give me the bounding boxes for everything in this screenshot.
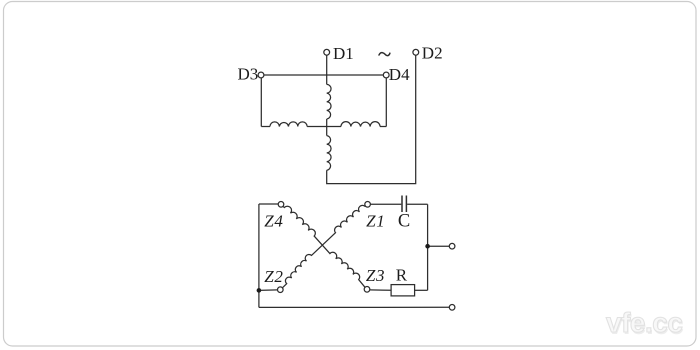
winding Z2-Z1 diagonal	[282, 205, 365, 287]
svg-text:D1: D1	[333, 44, 354, 63]
svg-text:R: R	[396, 266, 408, 285]
terminal Z4	[278, 202, 284, 208]
resistor R body	[391, 285, 415, 296]
terminal right middle	[449, 243, 455, 249]
wire D4 right vertical	[385, 78, 387, 127]
wire right vertical of bottom circuit	[427, 204, 429, 290]
wire center vertical through bottom wire	[326, 119, 328, 136]
terminal D4	[383, 72, 389, 78]
wire bottom of bottom circuit	[259, 306, 450, 308]
winding L1 upper vertical coil	[327, 84, 331, 119]
wire bottom of top circuit left stub	[261, 126, 270, 128]
label ac source tilde	[379, 53, 390, 56]
wire left vertical of bottom circuit	[258, 204, 260, 307]
svg-text:D2: D2	[422, 44, 443, 63]
terminal right bottom	[449, 305, 455, 311]
wire bottom of top circuit right stub	[380, 126, 386, 128]
wire Z3 to resistor	[370, 289, 391, 291]
capacitor C plates	[402, 196, 406, 213]
wire D3 left vertical	[260, 78, 262, 127]
svg-text:Z1: Z1	[366, 211, 385, 230]
junction dot left	[257, 288, 262, 293]
wire resistor to right vertical	[415, 289, 428, 291]
wire top left corner to Z4	[259, 203, 278, 205]
svg-text:Z3: Z3	[366, 266, 385, 285]
svg-text:C: C	[398, 211, 410, 231]
winding L4 right horizontal coil	[341, 122, 380, 127]
svg-text:Z4: Z4	[264, 211, 283, 230]
terminal Z2	[278, 287, 284, 293]
wire between horizontal coils	[307, 126, 341, 128]
svg-text:Z2: Z2	[264, 267, 283, 286]
winding Z4-Z3 diagonal	[283, 206, 365, 287]
wire D3 to D4	[264, 74, 383, 76]
svg-text:vfe.cc: vfe.cc	[606, 307, 682, 338]
wire capacitor to right vertical	[407, 203, 428, 205]
terminal Z1	[365, 202, 371, 208]
winding L3 left horizontal coil	[270, 122, 307, 127]
wire Z2 to left vertical	[259, 289, 278, 292]
terminal D3	[258, 72, 264, 78]
svg-text:D3: D3	[238, 65, 259, 84]
svg-text:D4: D4	[389, 65, 410, 84]
wire from lower coil to D2 branch	[327, 55, 416, 183]
wire D1 down to coil	[326, 55, 328, 84]
junction dot right	[425, 244, 430, 249]
winding L2 lower vertical coil	[327, 136, 331, 171]
terminal D1	[324, 49, 330, 55]
wire junction to right terminal	[428, 245, 450, 247]
wire Z1 to capacitor	[370, 203, 401, 205]
terminal D2	[413, 49, 419, 55]
terminal Z3	[364, 287, 370, 293]
